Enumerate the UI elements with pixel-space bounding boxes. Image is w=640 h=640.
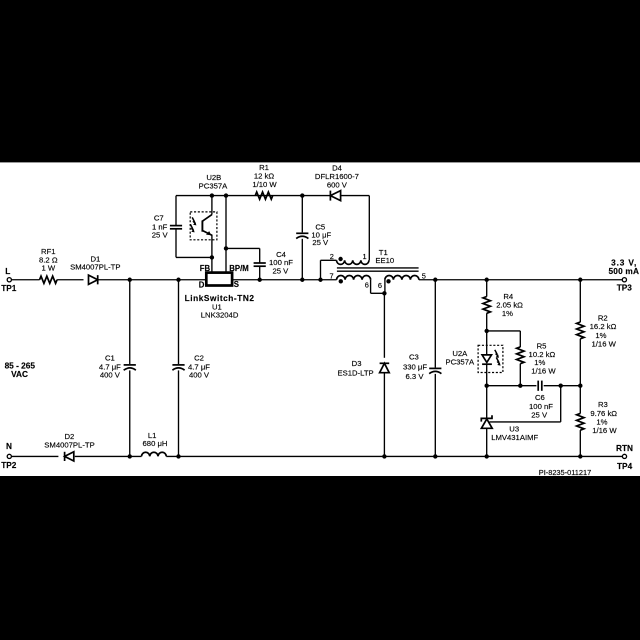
svg-text:R3: R3 (598, 400, 608, 409)
svg-text:400 V: 400 V (100, 370, 121, 379)
svg-text:600 V: 600 V (327, 181, 348, 190)
svg-text:1/16 W: 1/16 W (592, 426, 617, 435)
svg-text:PC357A: PC357A (445, 358, 475, 367)
svg-text:EE10: EE10 (375, 256, 394, 265)
wire pin6 left drop (371, 280, 385, 294)
wire RF1 to D1 (57, 279, 83, 281)
svg-text:6.3 V: 6.3 V (406, 372, 425, 381)
svg-text:TP4: TP4 (617, 461, 633, 471)
junction C5/rail (300, 278, 304, 282)
wire U3 reference (490, 386, 561, 422)
svg-text:TP3: TP3 (617, 283, 633, 293)
resistor R4 2.05 kOhm 1% (483, 280, 523, 331)
svg-text:25 V: 25 V (152, 231, 169, 240)
junction D3/return (382, 454, 386, 458)
capacitor C6 100 nF 25 V (529, 381, 553, 420)
IC U1 LNK3204D LinkSwitch-TN2 (185, 264, 255, 320)
svg-text:400 V: 400 V (189, 370, 210, 379)
junction top rail / BP pin (224, 193, 228, 197)
junction return/C2 (176, 454, 180, 458)
svg-text:ES1D-LTP: ES1D-LTP (338, 369, 374, 378)
junction ref/net (559, 384, 563, 388)
diode D3 ES1D-LTP (338, 293, 390, 456)
wire BP/M riser (225, 196, 227, 273)
svg-text:SM4007PL-TP: SM4007PL-TP (70, 263, 120, 272)
wire pin2 riser (321, 260, 337, 279)
pin number 6 right (378, 281, 382, 290)
junction top rail / opto collector (210, 193, 214, 197)
shunt regulator U3 LMV431AIMF (481, 386, 538, 457)
junction BP/C4 tee (224, 246, 228, 250)
wire pin1 riser to D4 rail (368, 196, 370, 261)
svg-text:25 V: 25 V (531, 410, 548, 419)
output labels 3.3V 500mA / TP3 (608, 257, 639, 292)
T1 primary winding pins 2-1 (337, 257, 369, 265)
pin number 1 (363, 252, 367, 261)
junction bus/C2 (176, 278, 180, 282)
pin number 7 (329, 271, 333, 280)
output labels RTN / TP4 (616, 443, 633, 471)
pin number 6 left (365, 281, 369, 290)
svg-text:2: 2 (330, 252, 334, 261)
svg-text:16.2 kΩ: 16.2 kΩ (590, 322, 617, 331)
wire L1 to D3 branch (return rail) (166, 455, 384, 457)
svg-text:VAC: VAC (11, 369, 28, 379)
svg-text:TP1: TP1 (1, 283, 17, 293)
pin number 5 (422, 271, 426, 280)
optocoupler U2B PC357A (transistor) (190, 173, 228, 273)
capacitor C3 330 uF 6.3 V (403, 280, 441, 457)
wire return rail D3 to TP4 (384, 455, 622, 457)
node L / test point TP1 (1, 266, 17, 293)
svg-text:1 W: 1 W (41, 264, 55, 273)
wire R4 tee to R5 (487, 331, 521, 347)
svg-text:C6: C6 (535, 393, 545, 402)
wire TP2 to D2 (11, 455, 58, 457)
resistor R1 12 kOhm 1/10 W (252, 163, 277, 199)
svg-text:LinkSwitch-TN2: LinkSwitch-TN2 (185, 293, 255, 303)
pin number 2 (330, 252, 334, 261)
junction C3/return rail (433, 454, 437, 458)
node N / test point TP2 (1, 441, 17, 470)
wire D1 to U1 drain (bus rail) (98, 279, 207, 281)
bottom letterbox bar (0, 476, 640, 640)
svg-text:TP2: TP2 (1, 460, 17, 470)
svg-text:25 V: 25 V (272, 267, 289, 276)
T1 secondary winding pins 7-6 (337, 276, 371, 284)
resistor R3 9.76 kOhm 1% 1/16 W (577, 386, 618, 457)
wire feedback net (487, 385, 537, 387)
svg-text:D3: D3 (352, 359, 362, 368)
diode D1 SM4007PL-TP (70, 254, 120, 284)
capacitor C2 4.7 uF 400 V (172, 280, 210, 457)
label 85 - 265 VAC (5, 360, 36, 379)
capacitor C1 4.7 uF 400 V (99, 280, 136, 457)
svg-text:1/16 W: 1/16 W (531, 366, 556, 375)
optocoupler U2A PC357A (LED) (445, 331, 502, 386)
svg-text:330 μF: 330 μF (403, 363, 427, 372)
inductor L1 680 uH (142, 431, 168, 456)
junction LED/net (485, 384, 489, 388)
svg-text:RTN: RTN (616, 443, 633, 453)
svg-text:1/10 W: 1/10 W (252, 180, 277, 189)
wire top rail C7 corner to pin1 riser (176, 195, 369, 197)
svg-text:PC357A: PC357A (199, 181, 229, 190)
capacitor C4 100 nF 25 V (226, 248, 293, 279)
svg-text:FB: FB (200, 264, 211, 273)
svg-text:L: L (5, 266, 10, 276)
svg-text:5: 5 (422, 271, 426, 280)
svg-text:680 μH: 680 μH (143, 439, 168, 448)
svg-text:500 mA: 500 mA (608, 266, 639, 276)
wire U1 source to transformer (232, 279, 336, 281)
svg-text:C3: C3 (409, 352, 419, 361)
svg-text:D2: D2 (64, 432, 74, 441)
junction C4/source rail (258, 278, 262, 282)
top letterbox bar (0, 0, 640, 162)
junction bus/C1 (128, 278, 132, 282)
capacitor C7 1 nF 25 V (152, 196, 212, 258)
junction R4/R5/LED tee (485, 329, 489, 333)
svg-text:6: 6 (365, 281, 369, 290)
svg-text:7: 7 (329, 271, 333, 280)
junction R4/output rail (485, 278, 489, 282)
svg-text:1%: 1% (502, 309, 513, 318)
junction C3/output rail (433, 278, 437, 282)
junction FB/C7 (210, 255, 214, 259)
junction U3/return (485, 454, 489, 458)
svg-text:1: 1 (363, 252, 367, 261)
junction R2/R3/C6 (578, 384, 582, 388)
junction R2/output rail (578, 278, 582, 282)
svg-text:1/16 W: 1/16 W (592, 339, 617, 348)
resistor RF1 8.2 ohm 1 W (39, 247, 58, 283)
T1 bias winding pins 6-5 (385, 276, 419, 284)
junction return/C1 (128, 454, 132, 458)
svg-text:25 V: 25 V (312, 238, 329, 247)
junction R3/return rail (578, 454, 582, 458)
transformer T1 EE10 labels (375, 248, 394, 265)
svg-text:PI-8235-011217: PI-8235-011217 (539, 468, 591, 477)
svg-text:C2: C2 (194, 353, 204, 362)
wire pin5 to TP3 (output rail) (419, 279, 622, 281)
wire C6 to divider node (544, 385, 581, 387)
junction pins 6-6 (382, 291, 386, 295)
document number PI-8235-011217 (539, 468, 591, 477)
svg-text:LNK3204D: LNK3204D (201, 311, 239, 320)
diode D4 DFLR1600-7 600 V (315, 164, 359, 201)
svg-text:C1: C1 (105, 353, 115, 362)
svg-text:S: S (234, 280, 239, 289)
svg-text:SM4007PL-TP: SM4007PL-TP (44, 441, 94, 450)
resistor R2 16.2 kOhm 1% 1/16 W (577, 280, 617, 386)
diode D2 SM4007PL-TP (44, 432, 94, 461)
wire pin6 right riser (384, 280, 386, 294)
junction R5/net (518, 384, 522, 388)
svg-text:6: 6 (378, 281, 382, 290)
resistor R5 10.2 kOhm 1% 1/16 W (517, 341, 557, 385)
svg-text:BP/M: BP/M (229, 264, 249, 273)
T1 core lines (337, 268, 419, 271)
svg-text:D: D (199, 280, 205, 289)
wire D2 to L1 (75, 455, 142, 457)
capacitor C5 10 uF 25 V (296, 196, 331, 280)
svg-text:LMV431AIMF: LMV431AIMF (491, 433, 538, 442)
junction pin2/rail (318, 278, 322, 282)
svg-text:N: N (6, 441, 12, 451)
wire TP1 to RF1 (11, 279, 39, 281)
junction top rail / C5 (300, 193, 304, 197)
